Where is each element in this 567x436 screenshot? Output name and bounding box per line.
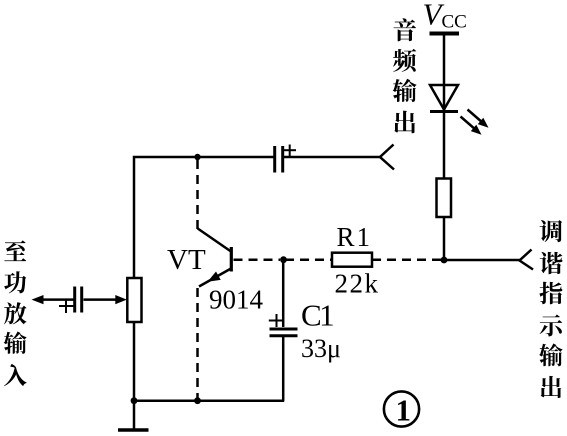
svg-text:R1: R1 [337, 222, 373, 252]
label: 音频输出 (audio output) [393, 18, 417, 133]
label: 调谐指示输出 (tuning indicator output) [539, 220, 562, 398]
capacitor C1 (polarized) [269, 314, 298, 336]
resistor R1 [332, 253, 372, 267]
ground symbol [118, 401, 149, 430]
svg-text:C1: C1 [301, 298, 333, 333]
svg-text:22k: 22k [335, 269, 380, 299]
capacitor C3 (audio output coupling, polarized) [275, 145, 296, 173]
terminal: audio output connector [380, 145, 394, 170]
svg-text:33μ: 33μ [301, 334, 341, 363]
wire: dashed R1 right lead [372, 258, 441, 261]
svg-text:9014: 9014 [209, 285, 264, 315]
figure number 1 (circled) [384, 391, 419, 427]
wire: dashed base lead [234, 258, 281, 261]
wire: resistor to junction node [443, 217, 446, 260]
node: junction R2 / R1 / output [441, 257, 448, 264]
power rail Vcc bar [430, 32, 460, 36]
wire + arrow to power amplifier input [40, 298, 74, 301]
wire: dashed emitter lead to ground rail [196, 288, 199, 399]
potentiometer RP (volume) [127, 278, 141, 322]
wire: dashed R1 left lead [285, 258, 332, 261]
wire: base junction down to C1 [282, 260, 285, 327]
node: VT base / C1 / R1 junction [280, 256, 287, 263]
wire: Vcc bar to LED anode [443, 35, 446, 85]
node: rail/emitter junction [194, 397, 201, 404]
wire: pot bottom to rail [133, 322, 136, 400]
wire: top horizontal rail (pot top to coupling cap) [134, 157, 274, 278]
wire: coupling cap to audio output terminal [284, 156, 380, 159]
capacitor C2 (input coupling, polarized) [59, 287, 82, 314]
terminal: tuning indicator output connector [520, 250, 534, 270]
wire: bottom ground rail [134, 399, 284, 402]
node: rail/pot junction [131, 397, 138, 404]
svg-text:1: 1 [396, 393, 412, 428]
wire: dashed collector lead [196, 160, 199, 229]
svg-text:CC: CC [442, 12, 467, 33]
label: 至功放输入 (to power amp input) [4, 240, 27, 386]
svg-text:VT: VT [167, 244, 206, 276]
transistor VT (9014, NPN) [198, 229, 232, 287]
LED light-emission arrows [461, 110, 489, 135]
wire: C1 to bottom rail [282, 336, 285, 401]
wiper arrow into pot [84, 298, 119, 301]
node: top-wire junction to VT collector [194, 154, 200, 160]
resistor R2 (LED series resistor) [437, 179, 452, 218]
LED VD (triangle + cathode bar) [430, 85, 458, 112]
wire: junction to tuning indicator terminal [444, 259, 520, 262]
wire: LED cathode to resistor [443, 112, 446, 178]
